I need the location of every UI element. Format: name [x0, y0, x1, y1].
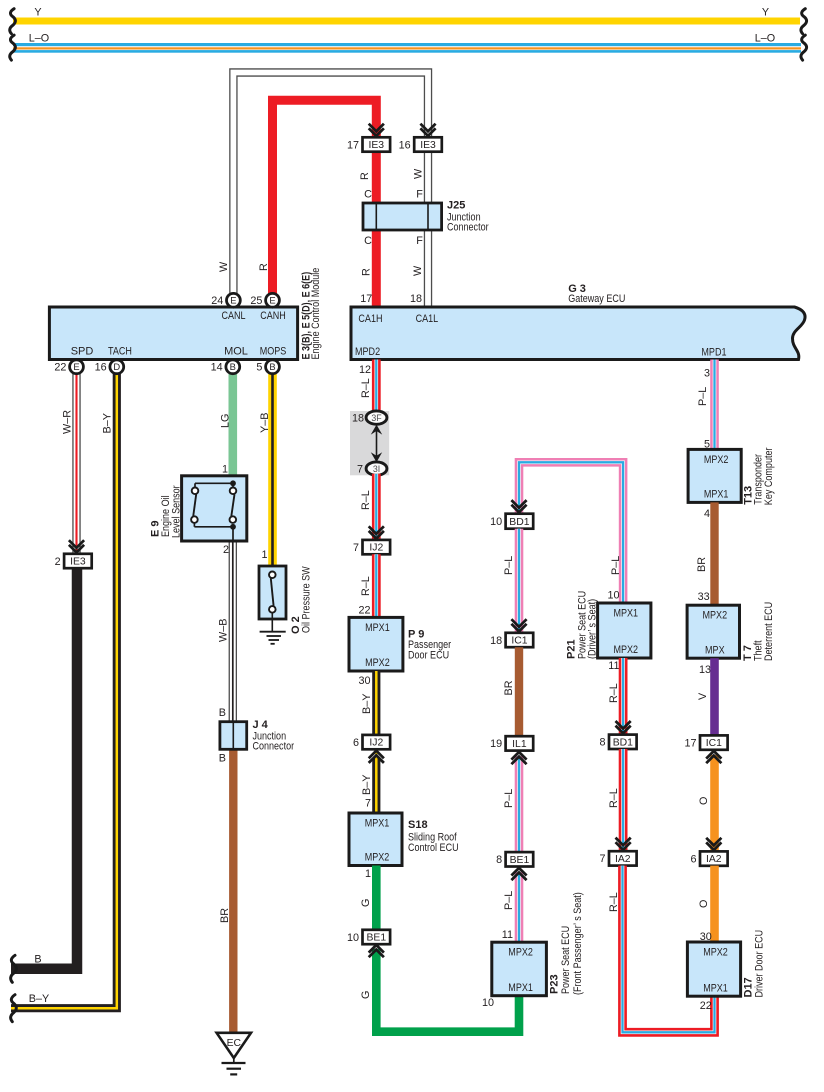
svg-text:18: 18 [352, 413, 364, 425]
svg-text:BD1: BD1 [509, 517, 529, 528]
svg-text:E: E [269, 295, 275, 306]
svg-text:16: 16 [95, 362, 107, 374]
break symbol Y bus right [801, 9, 807, 34]
connector BE1 pin 10 [347, 930, 390, 944]
svg-text:MOL: MOL [224, 346, 248, 358]
svg-text:IA2: IA2 [706, 854, 722, 865]
svg-text:G: G [360, 899, 372, 907]
svg-text:G: G [360, 991, 372, 999]
svg-text:MPX2: MPX2 [704, 454, 729, 466]
wire P-L (BE1-8 to P23) [515, 872, 524, 942]
svg-text:CANH: CANH [260, 310, 286, 322]
svg-text:7: 7 [365, 798, 371, 810]
ground EC (triangle) [217, 1033, 251, 1075]
svg-text:IL1: IL1 [512, 739, 527, 750]
label J4 Junction Connector [253, 719, 295, 752]
arrow into IC1-18 [511, 619, 526, 631]
arrow into IE3-16 [420, 124, 435, 136]
svg-text:MPX2: MPX2 [365, 657, 390, 669]
svg-text:D: D [113, 361, 120, 372]
svg-text:1: 1 [222, 464, 228, 476]
bus wire Y (yellow) [13, 18, 800, 25]
svg-text:Level Sensor: Level Sensor [171, 485, 183, 538]
wire W-R (SPD to IE3-2) [72, 374, 80, 554]
connector oval 3I pin 7 [357, 462, 387, 476]
wire R-L (P21 to BD1-8) [619, 658, 628, 735]
label P 9 Passenger Door ECU [408, 629, 451, 662]
svg-text:L–O: L–O [755, 33, 775, 45]
svg-text:IJ2: IJ2 [369, 543, 383, 554]
svg-text:B: B [230, 361, 236, 372]
label J25 Junction Connector [447, 200, 489, 234]
svg-text:C: C [364, 235, 372, 247]
svg-text:MPX1: MPX1 [365, 817, 390, 829]
svg-text:Y: Y [762, 7, 769, 19]
svg-text:10: 10 [482, 997, 494, 1009]
svg-text:Oil Pressure SW: Oil Pressure SW [301, 566, 313, 633]
svg-text:IA2: IA2 [615, 854, 631, 865]
wire R-L (BD1-8 to IA2-7) [619, 749, 628, 851]
svg-text:J 4: J 4 [253, 719, 269, 731]
svg-text:7: 7 [357, 464, 363, 476]
pin 5 B (MOPS) [266, 360, 280, 374]
connector IJ2 pin 6 [353, 735, 390, 749]
wire B-Y (TACH to left edge) [11, 374, 117, 1009]
svg-text:W: W [412, 265, 424, 276]
svg-text:17: 17 [347, 139, 359, 151]
arrow into BD1-10 [511, 500, 526, 512]
svg-text:R–L: R–L [360, 576, 372, 596]
arrow into IA2-6 [706, 838, 721, 850]
pin 14 B (MOL) [226, 360, 240, 374]
svg-text:MPX1: MPX1 [508, 982, 533, 994]
svg-text:1: 1 [261, 549, 267, 561]
svg-text:25: 25 [250, 295, 262, 307]
wire W (CANL to IE3-16) [233, 73, 428, 295]
svg-text:2: 2 [55, 556, 61, 568]
svg-text:Power Seat ECU: Power Seat ECU [560, 926, 572, 994]
svg-text:10: 10 [347, 932, 359, 944]
break symbol L-O bus right [801, 35, 807, 60]
wire R-L (shield to IJ2-7) [372, 474, 381, 540]
label P23 Power Seat ECU (Front Passenger's Seat) [549, 892, 585, 995]
wire B-Y (IJ2-6 to S18) [372, 758, 380, 813]
svg-text:B: B [219, 753, 226, 765]
svg-text:MPD1: MPD1 [701, 347, 726, 359]
svg-text:MPX2: MPX2 [703, 946, 728, 958]
wire P-L (MPD1 to T13) [710, 360, 719, 450]
arrow into IJ2-6 from below [369, 751, 384, 763]
arrow into IE3-17 [369, 124, 384, 136]
svg-text:BD1: BD1 [613, 737, 633, 748]
svg-text:IJ2: IJ2 [369, 738, 383, 749]
ECU G3 Gateway ECU box [351, 307, 805, 360]
svg-text:(Front Passenger’ s Seat): (Front Passenger’ s Seat) [572, 892, 584, 995]
break symbol B-Y bottom left [11, 995, 17, 1022]
svg-text:V: V [697, 692, 709, 700]
svg-text:BE1: BE1 [366, 933, 386, 944]
label E 9 Engine Oil Level Sensor [150, 485, 183, 538]
break symbol Y bus left [10, 9, 16, 34]
svg-text:24: 24 [211, 295, 223, 307]
svg-text:Driver Door ECU: Driver Door ECU [754, 930, 766, 998]
svg-text:B: B [34, 954, 41, 966]
connector oval 3F pin 18 [352, 411, 387, 425]
ECU T13 Transponder Key Computer [688, 449, 741, 502]
svg-text:11: 11 [608, 660, 619, 672]
connector IL1 pin 19 [490, 736, 533, 750]
wire B-Y (P9 to IJ2-6) [372, 671, 380, 735]
junction connector J25 [363, 203, 442, 230]
connector IJ2 pin 7 [353, 540, 390, 554]
svg-text:C: C [364, 189, 372, 201]
wire P-L (BD1-10 to IC1-18) [515, 529, 524, 633]
connector IC1 pin 17 [684, 735, 727, 749]
wire P-L (IL1-19 to BE1-8) [515, 756, 524, 852]
svg-text:18: 18 [410, 293, 422, 305]
svg-text:L–O: L–O [29, 33, 49, 45]
svg-text:MPX1: MPX1 [365, 622, 390, 634]
svg-text:17: 17 [360, 293, 372, 305]
break symbol L-O bus left [10, 35, 16, 60]
svg-text:R–L: R–L [360, 378, 372, 398]
svg-text:BR: BR [219, 908, 231, 923]
svg-text:P–L: P–L [503, 891, 515, 910]
svg-text:EC: EC [227, 1038, 242, 1049]
wire LG (MOL to E9) [229, 374, 238, 476]
svg-text:3I: 3I [373, 464, 380, 474]
svg-text:Engine Control Module: Engine Control Module [310, 268, 322, 360]
svg-text:IE3: IE3 [368, 140, 384, 151]
svg-text:J25: J25 [447, 200, 465, 212]
ECU P21 Power Seat ECU (Driver's Seat) [598, 603, 651, 658]
connector IC1 pin 18 [490, 633, 533, 647]
svg-text:P–L: P–L [610, 556, 622, 575]
svg-text:10: 10 [607, 590, 619, 602]
svg-text:R: R [258, 263, 270, 271]
svg-text:CA1L: CA1L [416, 313, 439, 325]
svg-text:30: 30 [358, 675, 370, 687]
svg-text:Connector: Connector [253, 740, 295, 752]
svg-text:7: 7 [353, 542, 359, 554]
svg-text:Y–B: Y–B [259, 413, 271, 433]
svg-text:BE1: BE1 [510, 855, 530, 866]
svg-text:22: 22 [700, 1000, 712, 1012]
svg-text:8: 8 [599, 737, 605, 749]
connector IE3 pin 16 [399, 137, 442, 151]
arrow into BE1-10 from below [369, 945, 384, 957]
svg-text:6: 6 [690, 853, 696, 865]
wire R (IE3-17 to J25) [372, 151, 381, 203]
svg-text:P–L: P–L [697, 387, 709, 406]
connector BD1 pin 10 [490, 514, 533, 529]
pin 25 E (CANH) [266, 293, 280, 307]
svg-text:W–B: W–B [218, 619, 230, 642]
svg-text:B–Y: B–Y [29, 993, 49, 1005]
wire R-L (IA2-7 to D17-22) [623, 866, 715, 1033]
svg-text:P23: P23 [549, 974, 561, 994]
break symbol B bottom left [11, 955, 17, 982]
svg-text:MPX1: MPX1 [703, 982, 728, 994]
label S18 Sliding Roof Control ECU [408, 819, 459, 854]
connector BE1 pin 8 [496, 852, 533, 866]
svg-text:Deterrent ECU: Deterrent ECU [763, 602, 775, 661]
svg-text:BR: BR [503, 680, 515, 695]
svg-text:S18: S18 [408, 819, 428, 831]
wire Y-B (MOPS to O2) [268, 374, 277, 566]
svg-text:LG: LG [220, 414, 232, 428]
wire G (BE1-10 to P23) [376, 949, 519, 1032]
svg-text:B–Y: B–Y [361, 775, 373, 795]
arrow into BD1-8 [616, 721, 631, 733]
connector BD1 pin 8 [599, 735, 636, 749]
pin 22 E (SPD) [70, 360, 84, 374]
svg-text:Connector: Connector [447, 222, 489, 234]
svg-text:13: 13 [699, 664, 711, 676]
svg-text:CANL: CANL [221, 310, 245, 322]
svg-text:1: 1 [365, 868, 371, 880]
arrow into IE3-2 [69, 540, 84, 552]
label E 3(B), E 5(D), E 6(E) Engine Control Module [301, 268, 323, 360]
arrow into IL1-19 from below [511, 752, 526, 764]
svg-text:Y: Y [34, 7, 41, 19]
svg-text:B: B [219, 707, 226, 719]
ECU E3/E5/E6 Engine Control Module box [49, 307, 297, 360]
pin 24 E (CANL) [227, 293, 241, 307]
svg-text:MOPS: MOPS [260, 346, 287, 358]
pin 16 D (TACH) [110, 360, 124, 374]
label T13 Transponder Key Computer [743, 447, 775, 505]
sensor E9 Engine Oil Level Sensor [182, 476, 247, 541]
svg-text:Key Computer: Key Computer [763, 447, 775, 505]
label G 3 Gateway ECU [568, 283, 625, 305]
svg-text:SPD: SPD [71, 346, 94, 358]
svg-text:16: 16 [399, 139, 411, 151]
svg-text:18: 18 [490, 635, 502, 647]
wire BR (J4 to EC ground) [229, 749, 237, 1033]
svg-text:CA1H: CA1H [358, 313, 382, 325]
svg-text:Gateway ECU: Gateway ECU [568, 293, 625, 305]
svg-text:W: W [218, 261, 230, 272]
svg-text:10: 10 [490, 516, 502, 528]
svg-text:MPX2: MPX2 [508, 947, 533, 959]
svg-text:22: 22 [54, 362, 66, 374]
svg-text:MPX1: MPX1 [704, 489, 729, 501]
svg-text:R: R [361, 268, 373, 276]
arrow into IA2-7 [616, 838, 631, 850]
svg-text:7: 7 [599, 853, 605, 865]
wire BR (T13 to T7) [710, 502, 718, 605]
svg-text:Control ECU: Control ECU [408, 842, 459, 854]
svg-text:5: 5 [256, 362, 262, 374]
wire B-Y yellow stem below IJ2-6 [375, 751, 378, 759]
svg-text:12: 12 [359, 364, 371, 376]
svg-text:MPX2: MPX2 [613, 644, 638, 656]
connector IE3 pin 2 [55, 554, 92, 568]
junction connector J4 [220, 722, 247, 750]
switch O2 Oil Pressure SW [259, 566, 286, 632]
label O 2 Oil Pressure SW [290, 566, 313, 634]
shielded splice 3F/3I (gray box) [350, 411, 389, 475]
connector IE3 pin 17 [347, 137, 390, 151]
wire B (IE3-2 to left edge) [11, 567, 77, 968]
svg-text:O: O [698, 797, 710, 805]
svg-text:19: 19 [490, 738, 502, 750]
bus wire L-O (blue/orange) [13, 43, 801, 53]
svg-text:R–L: R–L [608, 788, 620, 808]
wire O (IA2-6 to D17) [710, 866, 719, 942]
ECU P9 Passenger Door ECU [349, 617, 403, 671]
svg-text:IE3: IE3 [420, 140, 436, 151]
svg-text:B–Y: B–Y [102, 413, 114, 433]
svg-text:BR: BR [696, 557, 708, 572]
svg-text:MPX2: MPX2 [703, 610, 728, 622]
svg-text:4: 4 [704, 508, 710, 520]
svg-text:IE3: IE3 [70, 557, 86, 568]
svg-text:3: 3 [704, 368, 710, 380]
svg-text:33: 33 [698, 591, 710, 603]
svg-text:R–L: R–L [608, 683, 620, 703]
svg-text:TACH: TACH [108, 346, 132, 358]
svg-text:6: 6 [353, 737, 359, 749]
arrow into IJ2-7 [369, 526, 384, 538]
wire R-L (IJ2-7 to P9) [372, 554, 381, 617]
svg-text:O: O [698, 900, 710, 908]
svg-text:R–L: R–L [360, 490, 372, 510]
svg-text:B: B [269, 361, 275, 372]
wire V (T7 to IC1-17) [710, 658, 719, 735]
svg-text:W–R: W–R [62, 410, 74, 434]
svg-text:8: 8 [496, 854, 502, 866]
svg-text:MPX1: MPX1 [613, 607, 638, 619]
svg-text:14: 14 [211, 362, 223, 374]
svg-text:R: R [359, 172, 371, 180]
label T 7 Theft Deterrent ECU [742, 602, 775, 661]
wire R-L (MPD2 to shield) [372, 360, 381, 413]
ECU S18 Sliding Roof Control ECU [349, 813, 402, 866]
svg-text:R–L: R–L [608, 892, 620, 912]
wire W (J25 to CA1L) [424, 230, 432, 307]
svg-text:E: E [73, 361, 79, 372]
label D17 Driver Door ECU [743, 930, 766, 998]
connector IA2 pin 6 [690, 851, 727, 865]
arrow into IC1-17 from below [706, 751, 721, 763]
svg-text:2: 2 [223, 544, 229, 556]
wire P-L U-link (BD1-10 to P21-10) [519, 462, 623, 603]
svg-text:B–Y: B–Y [361, 694, 373, 714]
svg-text:W: W [413, 168, 425, 179]
svg-text:F: F [416, 189, 423, 201]
connector IA2 pin 7 [599, 851, 636, 865]
ECU P23 Power Seat ECU (Front Passenger's Seat) [492, 942, 547, 996]
svg-text:P–L: P–L [503, 789, 515, 808]
wire O (IC1-17 to IA2-6) [710, 755, 719, 852]
svg-text:11: 11 [502, 929, 513, 941]
svg-text:22: 22 [358, 605, 370, 617]
svg-text:MPX2: MPX2 [365, 852, 390, 864]
wire R (J25 to CA1H) [372, 230, 381, 307]
svg-text:17: 17 [684, 737, 696, 749]
svg-text:3F: 3F [371, 413, 382, 423]
ground below O2 [260, 632, 286, 644]
svg-text:IC1: IC1 [511, 636, 527, 647]
wire G (S18 to BE1-10) [372, 866, 381, 930]
wire BR (IC1-18 to IL1-19) [515, 647, 523, 736]
svg-text:E: E [230, 295, 236, 306]
svg-text:MPD2: MPD2 [355, 346, 380, 358]
ECU T7 Theft Deterrent ECU [687, 605, 739, 658]
ECU D17 Driver Door ECU [687, 942, 740, 996]
wire W (IE3-16 to J25) [424, 151, 432, 203]
wire W-B (E9 to J4) [229, 541, 237, 722]
arrow up-down between 3F and 3I [371, 425, 382, 463]
svg-text:MPX: MPX [705, 644, 725, 656]
svg-text:(Driver’ s Seat): (Driver’ s Seat) [587, 599, 599, 659]
arrow into BE1-8 from below [511, 868, 526, 880]
wire R (CANH to IE3-17) [273, 100, 377, 294]
label P21 Power Seat ECU (Driver's Seat) [566, 591, 599, 659]
svg-text:F: F [416, 235, 423, 247]
svg-text:Door ECU: Door ECU [408, 650, 449, 662]
svg-text:IC1: IC1 [706, 738, 722, 749]
svg-text:P–L: P–L [503, 556, 515, 575]
